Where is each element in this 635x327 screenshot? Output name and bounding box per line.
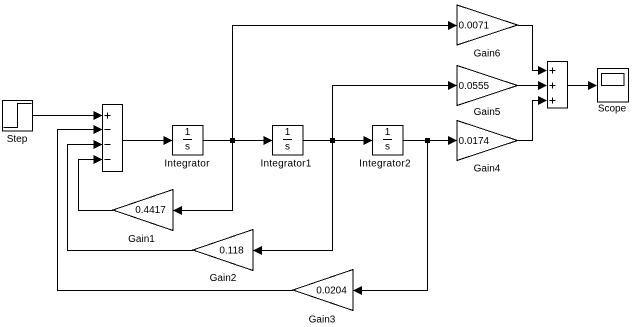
wire Integrator to Integrator1 with node [203, 136, 273, 145]
wire node1 up to Gain6 input [233, 21, 458, 141]
gain block Gain3 (points left) [293, 270, 353, 311]
svg-text:s: s [385, 142, 390, 153]
wire Integrator2 to Gain4 with node [403, 136, 457, 145]
node branch dot 2 [330, 138, 335, 143]
svg-text:Gain2: Gain2 [210, 273, 237, 284]
svg-text:0.0071: 0.0071 [459, 21, 490, 32]
svg-text:0.0174: 0.0174 [459, 136, 490, 147]
wire Sum1 output to Scope [568, 81, 598, 90]
svg-text:0.0204: 0.0204 [316, 286, 347, 297]
wire Gain6 output to Sum1 input 1 [518, 26, 548, 76]
scope block Scope [598, 69, 629, 103]
gain block Gain1 (points left) [113, 190, 173, 231]
wire node2 down to Gain2 input [253, 141, 333, 256]
node branch dot 1 [230, 138, 235, 143]
svg-text:s: s [185, 142, 190, 153]
svg-text:1: 1 [285, 127, 291, 138]
svg-text:s: s [285, 142, 290, 153]
sum block Sum (4 inputs) [103, 105, 123, 172]
sum block Sum1 (3 plus inputs) [548, 62, 568, 109]
wire Gain1 output to Sum input 4 [79, 155, 114, 211]
svg-text:0.4417: 0.4417 [135, 205, 166, 216]
wire Gain2 output to Sum input 3 [68, 140, 194, 251]
svg-text:Integrator: Integrator [164, 159, 210, 170]
node branch dot 3 [425, 138, 430, 143]
integrator block Integrator [173, 126, 204, 156]
gain block Gain2 (points left) [193, 230, 253, 271]
wire node2 up to Gain5 input [333, 81, 458, 141]
svg-text:1: 1 [185, 127, 191, 138]
svg-text:Gain5: Gain5 [474, 107, 501, 118]
svg-text:1: 1 [385, 127, 391, 138]
wire node3 down to Gain3 input [353, 141, 428, 296]
gain block Gain6 [457, 5, 518, 45]
svg-text:Step: Step [7, 134, 28, 145]
integrator block Integrator1 [273, 126, 304, 156]
svg-text:Gain4: Gain4 [474, 164, 501, 175]
svg-text:Integrator2: Integrator2 [359, 159, 411, 170]
svg-text:Gain6: Gain6 [474, 49, 501, 60]
integrator block Integrator2 [373, 126, 404, 156]
wire Step to Sum input 1 [33, 111, 103, 120]
svg-text:0.0555: 0.0555 [459, 81, 490, 92]
svg-text:0.118: 0.118 [219, 246, 244, 257]
wire Gain5 output to Sum1 input 2 [518, 81, 548, 90]
wire node1 down to Gain1 input [173, 141, 233, 216]
wire Integrator1 to Integrator2 with node [303, 136, 373, 145]
svg-text:Gain3: Gain3 [309, 315, 336, 326]
gain block Gain4 [457, 121, 518, 161]
Step source block [3, 101, 33, 132]
svg-text:Scope: Scope [598, 104, 627, 115]
wire Gain4 output to Sum1 input 3 [518, 96, 548, 141]
gain block Gain5 [457, 66, 518, 106]
wire Sum output to Integrator [123, 136, 173, 145]
wire Gain3 output to Sum input 2 [58, 125, 294, 291]
svg-text:Gain1: Gain1 [128, 234, 155, 245]
svg-text:Integrator1: Integrator1 [260, 159, 311, 170]
